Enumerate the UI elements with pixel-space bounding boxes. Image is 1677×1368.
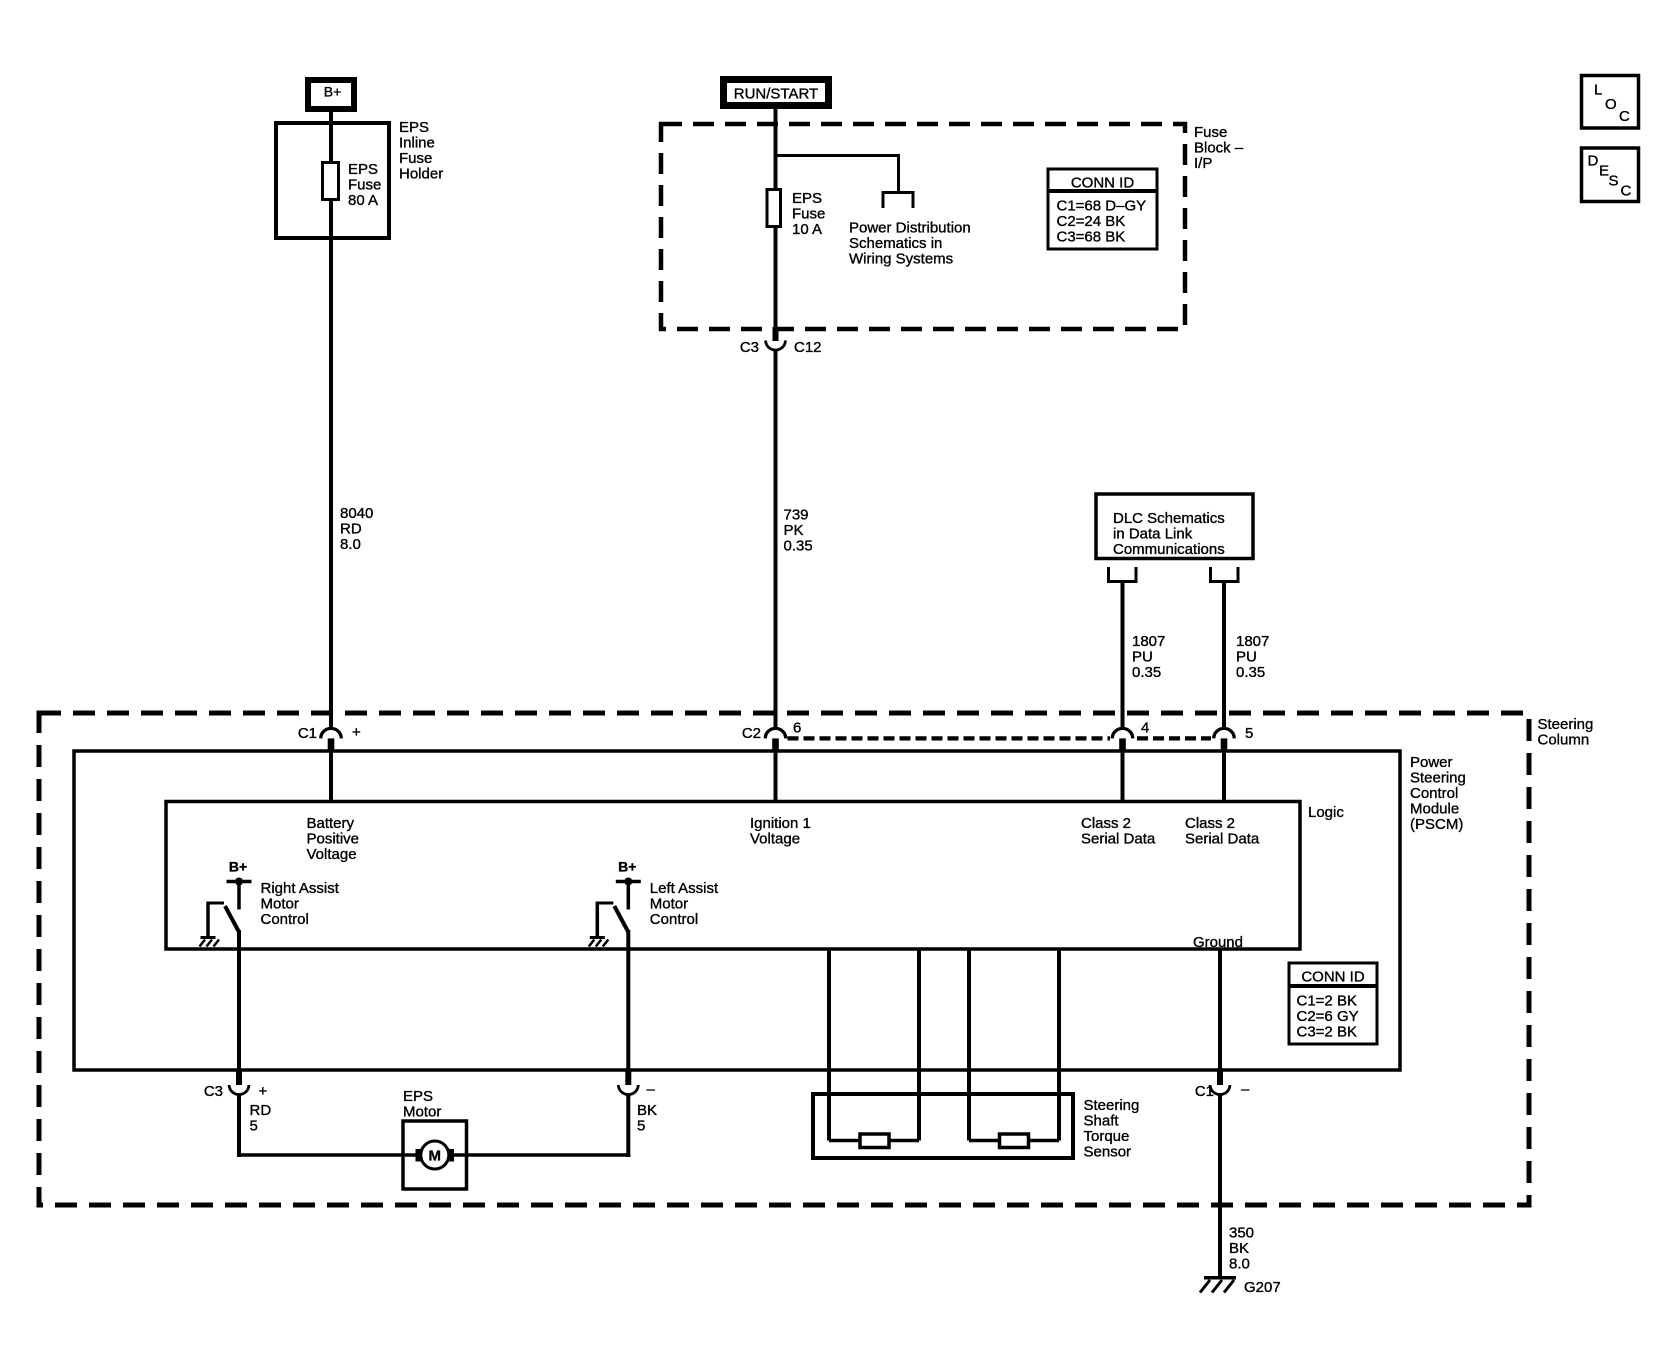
svg-text:Motor: Motor xyxy=(650,895,688,912)
svg-text:Ground: Ground xyxy=(1193,934,1243,951)
svg-text:B+: B+ xyxy=(618,859,636,875)
svg-text:EPS: EPS xyxy=(403,1088,433,1105)
svg-text:Sensor: Sensor xyxy=(1084,1143,1132,1160)
svg-text:Motor: Motor xyxy=(403,1103,441,1120)
svg-text:C1: C1 xyxy=(298,725,317,742)
svg-text:C2=24 BK: C2=24 BK xyxy=(1057,213,1126,230)
svg-text:5: 5 xyxy=(1245,725,1253,742)
svg-text:PU: PU xyxy=(1132,648,1153,665)
svg-text:B+: B+ xyxy=(324,84,342,100)
svg-text:Serial Data: Serial Data xyxy=(1185,830,1260,847)
svg-text:Left Assist: Left Assist xyxy=(650,880,719,897)
svg-text:Torque: Torque xyxy=(1084,1128,1130,1145)
svg-text:1807: 1807 xyxy=(1132,633,1165,650)
svg-text:10 A: 10 A xyxy=(792,221,822,238)
svg-text:C: C xyxy=(1619,108,1630,125)
svg-text:5: 5 xyxy=(637,1117,645,1134)
svg-text:0.35: 0.35 xyxy=(784,537,813,554)
svg-text:Power Distribution: Power Distribution xyxy=(849,219,971,236)
svg-text:BK: BK xyxy=(637,1102,657,1119)
svg-text:Control: Control xyxy=(261,911,309,928)
svg-text:C3: C3 xyxy=(204,1083,223,1100)
svg-text:Fuse: Fuse xyxy=(399,150,432,167)
svg-text:Logic: Logic xyxy=(1308,804,1344,821)
svg-text:Shaft: Shaft xyxy=(1084,1112,1120,1129)
svg-text:EPS: EPS xyxy=(792,190,822,207)
svg-text:8.0: 8.0 xyxy=(1229,1255,1250,1272)
svg-text:CONN ID: CONN ID xyxy=(1301,969,1365,986)
svg-text:E: E xyxy=(1599,163,1609,180)
svg-text:Communications: Communications xyxy=(1113,541,1225,558)
svg-text:(PSCM): (PSCM) xyxy=(1410,816,1463,833)
svg-text:EPS: EPS xyxy=(348,161,378,178)
svg-text:L: L xyxy=(1594,82,1602,99)
svg-text:G207: G207 xyxy=(1244,1279,1281,1296)
svg-text:CONN ID: CONN ID xyxy=(1071,174,1135,191)
svg-text:RD: RD xyxy=(340,520,362,537)
svg-text:Serial Data: Serial Data xyxy=(1081,830,1156,847)
svg-text:Voltage: Voltage xyxy=(307,846,357,863)
svg-text:RD: RD xyxy=(250,1102,272,1119)
svg-text:0.35: 0.35 xyxy=(1236,664,1265,681)
svg-text:Power: Power xyxy=(1410,754,1453,771)
svg-text:Steering: Steering xyxy=(1410,769,1466,786)
svg-text:Motor: Motor xyxy=(261,895,299,912)
svg-text:Schematics in: Schematics in xyxy=(849,235,942,252)
svg-text:PK: PK xyxy=(784,522,804,539)
svg-text:Voltage: Voltage xyxy=(750,830,800,847)
svg-text:Inline: Inline xyxy=(399,134,435,151)
svg-text:Block –: Block – xyxy=(1194,139,1244,156)
svg-text:PU: PU xyxy=(1236,648,1257,665)
svg-text:Module: Module xyxy=(1410,800,1459,817)
svg-text:Control: Control xyxy=(1410,785,1458,802)
svg-text:4: 4 xyxy=(1141,720,1149,737)
svg-text:8040: 8040 xyxy=(340,505,373,522)
svg-text:O: O xyxy=(1605,96,1617,113)
svg-text:739: 739 xyxy=(784,506,809,523)
svg-text:C1=2 BK: C1=2 BK xyxy=(1297,993,1357,1010)
svg-text:Battery: Battery xyxy=(307,815,355,832)
svg-text:C2: C2 xyxy=(742,725,761,742)
svg-text:I/P: I/P xyxy=(1194,155,1212,172)
svg-text:C3: C3 xyxy=(740,339,759,356)
svg-text:C3=2 BK: C3=2 BK xyxy=(1297,1024,1357,1041)
svg-text:Class 2: Class 2 xyxy=(1081,815,1131,832)
svg-text:C12: C12 xyxy=(794,339,822,356)
svg-text:Control: Control xyxy=(650,911,698,928)
svg-text:80 A: 80 A xyxy=(348,192,378,209)
svg-text:DLC Schematics: DLC Schematics xyxy=(1113,510,1225,527)
svg-text:S: S xyxy=(1609,173,1619,190)
svg-text:Steering: Steering xyxy=(1538,716,1594,733)
svg-text:Steering: Steering xyxy=(1084,1097,1140,1114)
svg-text:C2=6 GY: C2=6 GY xyxy=(1297,1008,1359,1025)
svg-text:Fuse: Fuse xyxy=(1194,124,1227,141)
svg-text:1807: 1807 xyxy=(1236,633,1269,650)
svg-text:RUN/START: RUN/START xyxy=(734,86,818,103)
svg-text:0.35: 0.35 xyxy=(1132,664,1161,681)
svg-text:EPS: EPS xyxy=(399,119,429,136)
svg-text:Ignition 1: Ignition 1 xyxy=(750,815,811,832)
svg-text:+: + xyxy=(259,1083,268,1100)
svg-text:+: + xyxy=(352,724,361,741)
svg-text:C1=68 D–GY: C1=68 D–GY xyxy=(1057,197,1147,214)
svg-text:D: D xyxy=(1588,153,1599,170)
svg-text:Class 2: Class 2 xyxy=(1185,815,1235,832)
svg-text:–: – xyxy=(647,1081,656,1098)
svg-text:Wiring Systems: Wiring Systems xyxy=(849,250,953,267)
svg-text:in Data Link: in Data Link xyxy=(1113,525,1193,542)
svg-text:BK: BK xyxy=(1229,1240,1249,1257)
svg-text:5: 5 xyxy=(250,1117,258,1134)
svg-text:M: M xyxy=(429,1148,442,1165)
svg-text:C: C xyxy=(1621,183,1632,200)
svg-text:Column: Column xyxy=(1538,731,1590,748)
svg-text:Fuse: Fuse xyxy=(792,205,825,222)
svg-text:C3=68 BK: C3=68 BK xyxy=(1057,228,1126,245)
svg-text:–: – xyxy=(1241,1081,1250,1098)
svg-text:Fuse: Fuse xyxy=(348,176,381,193)
svg-text:8.0: 8.0 xyxy=(340,536,361,553)
svg-text:Positive: Positive xyxy=(307,830,360,847)
svg-text:6: 6 xyxy=(793,720,801,737)
svg-text:Holder: Holder xyxy=(399,165,443,182)
svg-text:350: 350 xyxy=(1229,1224,1254,1241)
svg-text:C1: C1 xyxy=(1195,1083,1214,1100)
svg-text:Right Assist: Right Assist xyxy=(261,880,340,897)
svg-text:B+: B+ xyxy=(229,859,247,875)
